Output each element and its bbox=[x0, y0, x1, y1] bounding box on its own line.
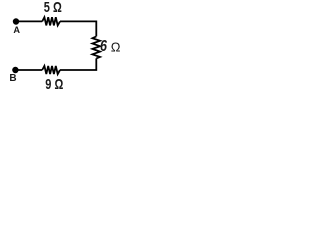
wire R1 to top-right corner and down to R2 bbox=[60, 21, 96, 36]
svg-text:6: 6 bbox=[100, 37, 108, 55]
wire R3 to B bbox=[16, 69, 42, 71]
resistor R3 9 ohm bbox=[42, 66, 60, 74]
wire R2 to bottom-right corner and left to R3 bbox=[60, 58, 96, 70]
svg-text:5 Ω: 5 Ω bbox=[44, 0, 62, 16]
resistor R2 6 ohm (vertical) bbox=[92, 36, 100, 58]
resistor R1 5 ohm bbox=[42, 17, 60, 25]
svg-text:B: B bbox=[9, 73, 16, 84]
node B bbox=[12, 67, 18, 73]
svg-text:9 Ω: 9 Ω bbox=[45, 76, 63, 93]
node A bbox=[13, 18, 19, 24]
svg-text:Ω: Ω bbox=[111, 39, 121, 54]
svg-text:A: A bbox=[13, 25, 20, 35]
wire A to R1 bbox=[16, 20, 42, 22]
